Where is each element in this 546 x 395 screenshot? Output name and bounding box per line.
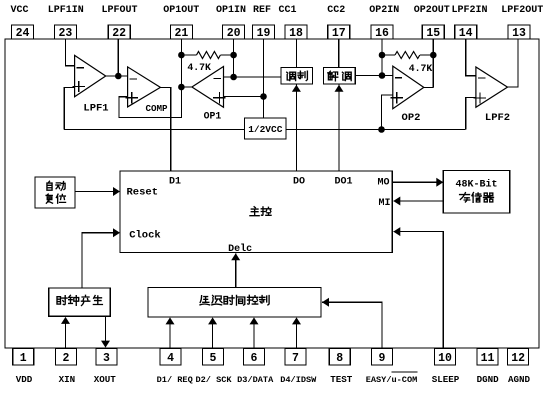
自动 text — [47, 181, 52, 190]
wire pin9 EASY/u-COM to 延迟时间控制 — [322, 302, 382, 348]
junction R1 left / pin21 — [178, 52, 185, 59]
pin 18 (CC1) box — [285, 25, 307, 39]
arrow into Reset — [113, 187, 120, 196]
svg-text:15: 15 — [426, 27, 440, 40]
svg-text:COMP: COMP — [145, 103, 168, 114]
svg-text:LPF2: LPF2 — [485, 112, 510, 124]
pin 7 (D4/IDSW) box — [285, 349, 306, 366]
svg-text:D1: D1 — [169, 177, 181, 188]
svg-text:9: 9 — [379, 352, 386, 365]
wire 时钟产生 to 主控 Clock — [82, 233, 119, 288]
svg-text:Clock: Clock — [129, 230, 161, 242]
wire pin22 LPFOUT to LPF1 output — [117, 39, 119, 76]
svg-text:VCC: VCC — [10, 5, 28, 16]
解调 text — [328, 71, 338, 81]
wire OP1 output to node — [181, 86, 192, 88]
OP2 plus sign — [391, 97, 404, 99]
svg-text:Delc: Delc — [228, 243, 252, 255]
svg-text:MO: MO — [377, 178, 389, 189]
svg-text:1: 1 — [20, 352, 27, 365]
arrow MO into 存储器 — [436, 178, 443, 187]
junction LPF1 output node — [115, 73, 122, 80]
svg-text:SLEEP: SLEEP — [432, 374, 460, 385]
arrow XOUT to border — [101, 341, 110, 348]
LPF1 plus sign — [72, 86, 85, 88]
resistor R2 4.7K zigzag — [395, 52, 420, 59]
arrow pin4 into 延迟时间控制 — [166, 317, 175, 324]
svg-text:23: 23 — [58, 27, 72, 40]
wire OP2 non-inverting input to bias rail — [382, 95, 393, 130]
op-amp LPF1 — [75, 55, 106, 96]
IC outline border — [5, 39, 539, 348]
svg-text:5: 5 — [209, 352, 216, 365]
wire 1/2VCC bias rail left segment — [64, 129, 244, 131]
pin 1 (VDD) box — [13, 349, 34, 366]
svg-text:2: 2 — [63, 352, 70, 365]
svg-text:3: 3 — [103, 352, 110, 365]
svg-text:13: 13 — [512, 27, 526, 40]
svg-text:21: 21 — [174, 27, 188, 40]
pin 8 (TEST) box — [329, 349, 350, 366]
LPF1 minus sign — [77, 67, 84, 69]
svg-text:TEST: TEST — [330, 374, 353, 385]
svg-text:LPF1IN: LPF1IN — [48, 5, 84, 16]
pin 13 (LPF2OUT) box — [508, 25, 530, 39]
wire pin15 OP2OUT down to OP2 output — [432, 39, 434, 87]
wire pin14 LPF2IN down to LPF2 inverting input — [466, 39, 476, 76]
svg-text:18: 18 — [289, 27, 303, 40]
COMP minus sign — [130, 78, 137, 80]
svg-text:D4/IDSW: D4/IDSW — [280, 375, 317, 385]
svg-text:DGND: DGND — [477, 374, 500, 385]
junction OP2 bias tap — [378, 126, 385, 133]
svg-text:1/2VCC: 1/2VCC — [248, 124, 283, 135]
wire pin16 OP2IN down to R2 left node — [381, 39, 383, 76]
COMP plus sign — [125, 97, 138, 99]
svg-text:48K-Bit: 48K-Bit — [455, 179, 497, 191]
wire 延迟时间控制 up to 主控 Delc — [235, 253, 237, 287]
调制 text — [287, 72, 296, 80]
pin 15 (OP2OUT) box — [422, 25, 444, 39]
svg-text:VDD: VDD — [16, 374, 33, 385]
svg-text:24: 24 — [16, 27, 30, 40]
wire 主控 MO to 存储器 — [392, 181, 442, 183]
pin 10 (SLEEP) box — [435, 349, 456, 366]
svg-text:REF: REF — [253, 5, 271, 16]
svg-text:MI: MI — [378, 198, 390, 209]
resistor R1 4.7K zigzag — [197, 52, 221, 59]
block 1/2VCC bias generator — [245, 118, 287, 139]
svg-text:XIN: XIN — [59, 374, 76, 385]
wire 时钟产生 down to pin3 XOUT — [105, 316, 107, 341]
pin 19 (REF) box — [253, 25, 275, 39]
pin 24 (VCC) box — [12, 25, 34, 39]
svg-text:DO1: DO1 — [334, 177, 352, 188]
pin 23 (LPF1IN) box — [54, 25, 76, 39]
junction R2 right / pin15 — [430, 52, 437, 59]
wire pin7 up to 延迟时间控制 — [296, 323, 298, 349]
svg-text:17: 17 — [332, 27, 346, 40]
LPF2 plus sign — [474, 97, 487, 99]
pin 14 (LPF2IN) box — [455, 25, 477, 39]
svg-text:Reset: Reset — [127, 187, 159, 199]
block 主控 (main controller) — [120, 171, 392, 253]
LPF2 minus sign — [478, 77, 485, 79]
wire 存储器 to 主控 MI — [393, 200, 443, 202]
junction REF / OP1 non-inverting — [260, 93, 267, 100]
wire COMP output down to 主控 D1 — [160, 87, 170, 171]
svg-text:16: 16 — [375, 27, 389, 40]
svg-text:CC2: CC2 — [327, 5, 345, 16]
svg-text:OP1IN: OP1IN — [216, 5, 246, 16]
op-amp LPF2 — [476, 67, 508, 107]
pin 16 (OP2IN) box — [371, 25, 393, 39]
存储器 text — [460, 193, 470, 202]
wire pin4 up to 延迟时间控制 — [169, 323, 171, 349]
svg-text:LPF2IN: LPF2IN — [451, 5, 487, 16]
svg-text:DO: DO — [293, 177, 305, 188]
wire pin20 OP1IN down to R1 right node — [233, 39, 235, 77]
svg-text:10: 10 — [438, 352, 452, 365]
pin 5 (D2/ SCK) box — [202, 349, 223, 366]
pin 21 (OP1OUT) box — [170, 25, 192, 39]
svg-text:AGND: AGND — [508, 374, 531, 385]
block 自动复位 (auto reset) — [35, 177, 75, 208]
svg-text:XOUT: XOUT — [94, 374, 117, 385]
wire pin6 up to 延迟时间控制 — [253, 323, 255, 349]
junction R1 right / pin20 — [230, 52, 237, 59]
wire resistor R1 leads — [181, 54, 196, 56]
wire pin2 XIN up to 时钟产生 — [65, 322, 67, 348]
op-amp OP2 — [393, 66, 424, 109]
svg-text:OP2: OP2 — [402, 112, 421, 124]
wire pin17 CC2 down to 解调 block — [338, 39, 340, 68]
svg-text:22: 22 — [112, 27, 126, 40]
junction OP1 inverting node — [230, 74, 237, 81]
svg-text:14: 14 — [459, 27, 473, 40]
wire 解调 output to OP2 inverting input — [355, 75, 393, 77]
svg-text:8: 8 — [336, 352, 343, 365]
arrow pin9 into 延迟时间控制 right side — [322, 298, 329, 307]
wire OP1 non-inverting input to REF line — [224, 96, 264, 98]
arrow SLEEP into 主控 — [393, 227, 400, 236]
junction OP2 inverting node — [379, 72, 386, 79]
wire pin23 LPF1IN to LPF1 inverting input — [65, 39, 74, 66]
pin 4 (D1/ REQ) box — [160, 349, 181, 366]
svg-text:11: 11 — [481, 352, 495, 365]
svg-text:D3/DATA: D3/DATA — [237, 375, 274, 385]
延迟时间控制 text — [200, 296, 210, 305]
wire LPF2 output to pin13 LPF2OUT — [508, 39, 519, 87]
svg-text:19: 19 — [257, 27, 271, 40]
wire LPF2 non-inverting input to bias rail — [466, 98, 476, 130]
wire resistor R2 leads — [382, 54, 395, 56]
wire 主控 DO1 up to 解调 block — [338, 84, 340, 171]
wire LPF1 output to COMP inverting input — [106, 75, 128, 77]
arrow pin7 into 延迟时间控制 — [292, 317, 301, 324]
svg-text:4: 4 — [167, 352, 174, 365]
junction R2 left / pin16 — [379, 52, 386, 59]
arrow pin6 into 延迟时间控制 — [250, 317, 259, 324]
复位 text — [46, 194, 52, 203]
wire pin21 OP1OUT down through R1 node to OP1 output node — [180, 39, 182, 87]
arrow Delc into 主控 — [231, 253, 240, 260]
wire 1/2VCC bias rail right segment — [286, 129, 466, 131]
pin 3 (XOUT) box — [96, 349, 117, 366]
arrow into 调制 bottom — [292, 85, 301, 92]
wire 自动复位 to 主控 Reset — [75, 191, 119, 193]
svg-text:OP2IN: OP2IN — [369, 5, 399, 16]
arrow into 解调 bottom — [335, 85, 344, 92]
block 时钟产生 (clock generator) — [49, 288, 111, 316]
时钟产生 text — [57, 296, 67, 305]
pin 22 (LPFOUT) box — [108, 25, 130, 39]
svg-text:EASY/u-COM: EASY/u-COM — [366, 375, 418, 385]
pin 9 (EASY/u-COM) box — [372, 349, 393, 366]
block 48K-Bit 存储器 (memory) — [443, 170, 509, 213]
op-amp COMP — [128, 67, 161, 107]
wire OP1 inverting input to 调制 output — [224, 76, 282, 78]
wire pin10 SLEEP to 主控 — [393, 232, 443, 348]
svg-text:6: 6 — [251, 352, 258, 365]
pin 11 (DGND) box — [477, 349, 498, 366]
wire OP2 output to pin15 line — [424, 86, 434, 88]
pin 2 (XIN) box — [56, 349, 77, 366]
wire pin18 CC1 down to 调制 block — [295, 39, 297, 68]
svg-text:CC1: CC1 — [278, 5, 296, 16]
arrow pin5 into 延迟时间控制 — [208, 317, 217, 324]
junction OP1 output node — [178, 84, 185, 91]
op-amp OP1 — [192, 67, 224, 108]
svg-text:20: 20 — [227, 27, 241, 40]
arrow MI into 主控 — [393, 197, 400, 206]
OP1 plus sign — [213, 97, 226, 99]
pin 12 (AGND) box — [508, 349, 529, 366]
svg-text:4.7K: 4.7K — [187, 62, 211, 73]
svg-text:D1/ REQ: D1/ REQ — [157, 375, 193, 385]
主控 text — [250, 207, 259, 216]
svg-text:OP1OUT: OP1OUT — [163, 5, 199, 16]
wire pin19 REF down to 1/2VCC block — [263, 39, 265, 118]
arrow XIN into 时钟产生 — [61, 317, 70, 324]
svg-text:OP2OUT: OP2OUT — [414, 5, 450, 16]
wire pin5 up to 延迟时间控制 — [212, 323, 214, 349]
block 调制 (modulator) — [281, 68, 313, 85]
wire 主控 DO up to 调制 block — [295, 84, 297, 171]
wire OP1 output node to COMP non-inverting input — [119, 87, 181, 118]
block 解调 (demodulator) — [324, 68, 356, 85]
svg-text:OP1: OP1 — [204, 111, 222, 122]
pin 20 (OP1IN) box — [223, 25, 245, 39]
block 延迟时间控制 (delay time control) — [148, 288, 321, 318]
svg-text:12: 12 — [511, 352, 525, 365]
svg-text:LPF2OUT: LPF2OUT — [501, 5, 543, 16]
svg-text:D2/ SCK: D2/ SCK — [195, 375, 232, 385]
pin 17 (CC2) box — [328, 25, 350, 39]
svg-text:LPFOUT: LPFOUT — [101, 5, 137, 16]
arrow into Clock — [113, 228, 120, 237]
OP2 minus sign — [395, 77, 402, 79]
svg-text:7: 7 — [292, 352, 299, 365]
pin 6 (D3/DATA) box — [244, 349, 265, 366]
OP1 minus sign — [214, 78, 222, 80]
svg-text:4.7K: 4.7K — [409, 63, 433, 74]
wire LPF1 non-inverting input to 1/2VCC bias rail — [64, 88, 74, 130]
svg-text:LPF1: LPF1 — [83, 103, 108, 115]
